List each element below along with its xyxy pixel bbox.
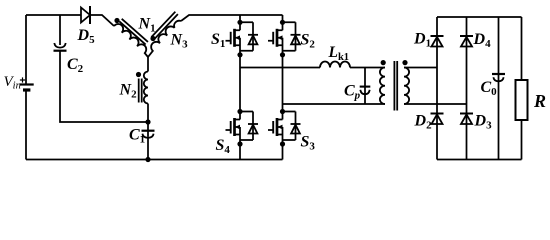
polarity dot N3 xyxy=(150,36,155,41)
diode D4 xyxy=(460,36,473,47)
transistor S3 with body diode xyxy=(268,109,301,147)
transistor S2 with body diode xyxy=(268,20,301,58)
svg-text:C2: C2 xyxy=(67,56,84,75)
wire right bridge leg segments xyxy=(282,15,284,160)
diode D2 xyxy=(431,114,444,125)
svg-text:D1: D1 xyxy=(413,31,431,50)
inductor Lk1 xyxy=(320,62,350,68)
capacitor Cp xyxy=(360,87,371,95)
capacitor C0 xyxy=(492,74,505,81)
svg-text:N1: N1 xyxy=(138,16,156,35)
polarity dot transformer primary xyxy=(381,60,386,65)
wire bottom rail left xyxy=(26,159,283,161)
wire Vin branch lower xyxy=(25,90,27,160)
svg-text:R: R xyxy=(533,91,546,111)
wire V junction to N2 xyxy=(147,57,149,72)
wire secondary bottom to rectifier xyxy=(404,103,467,105)
inductor winding N2 xyxy=(139,72,148,104)
svg-text:S1: S1 xyxy=(211,31,225,50)
capacitor C2 xyxy=(54,43,67,51)
diode D5 xyxy=(81,6,90,24)
diode D1 xyxy=(431,36,444,47)
capacitor C1 xyxy=(142,131,155,138)
coupled inductor winding N1 xyxy=(113,18,155,57)
wire rectifier top rail xyxy=(437,16,522,18)
wire Vin branch upper xyxy=(25,15,27,84)
svg-text:N3: N3 xyxy=(170,32,189,51)
wire D4 D3 branch xyxy=(466,17,468,160)
wire secondary top to rectifier xyxy=(404,67,437,69)
wire Lk1 to transformer primary top xyxy=(350,67,385,69)
wire C2 branch lower to C1 node xyxy=(60,51,148,123)
svg-text:S3: S3 xyxy=(301,134,316,153)
wire N3 to bridge top rail xyxy=(181,15,283,21)
transistor S4 with body diode xyxy=(226,109,259,147)
wire R branch xyxy=(521,17,523,160)
diode D3 xyxy=(460,114,473,125)
polarity dot N2 xyxy=(136,72,141,77)
svg-text:D3: D3 xyxy=(474,113,493,132)
wire B bridge right midpoint to primary bottom xyxy=(283,103,386,105)
svg-text:Cp: Cp xyxy=(344,83,361,102)
svg-text:D5: D5 xyxy=(77,27,96,46)
wire D5 cathode to N1 slant xyxy=(90,15,114,26)
resistor R xyxy=(516,80,528,120)
wire top-left rail xyxy=(26,14,81,16)
wire rectifier bottom rail xyxy=(437,159,522,161)
wire left bridge leg segments xyxy=(239,15,241,160)
node C1 bottom junction xyxy=(145,157,150,162)
wire D1 D2 branch xyxy=(436,17,438,160)
svg-text:D2: D2 xyxy=(414,113,433,132)
transistor S1 with body diode xyxy=(226,20,259,58)
wire C2 branch upper xyxy=(59,15,61,45)
svg-text:D4: D4 xyxy=(473,31,492,50)
wire C1 to bottom rail xyxy=(147,136,149,159)
svg-text:Lk1: Lk1 xyxy=(328,44,350,63)
battery Vin xyxy=(20,77,34,90)
coupled inductor winding N3 xyxy=(140,12,184,57)
wire A bridge left midpoint to Lk1 xyxy=(240,67,320,69)
transformer core xyxy=(394,61,397,111)
wire N2 to C1 xyxy=(147,104,149,137)
svg-text:S2: S2 xyxy=(301,32,316,51)
transformer secondary winding xyxy=(404,68,409,105)
svg-text:Vin: Vin xyxy=(4,74,21,92)
svg-text:N2: N2 xyxy=(119,82,138,101)
polarity dot transformer secondary xyxy=(402,60,407,65)
svg-text:C0: C0 xyxy=(481,79,498,98)
svg-text:C1: C1 xyxy=(129,127,145,146)
wire Cp branch xyxy=(364,68,366,104)
polarity dot N1 xyxy=(114,18,119,23)
node C1 top junction xyxy=(145,119,150,124)
svg-text:S4: S4 xyxy=(216,137,231,156)
wire C0 branch xyxy=(498,17,500,160)
transformer primary winding xyxy=(380,68,385,105)
